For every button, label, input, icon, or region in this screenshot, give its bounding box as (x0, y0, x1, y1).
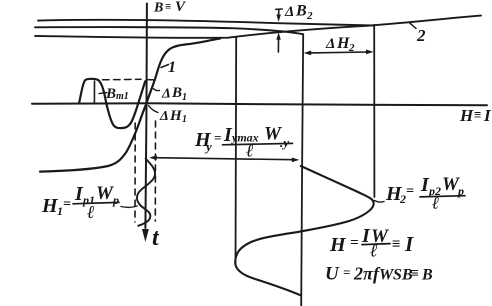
B(t) waveform left (79, 79, 145, 128)
svg-text:≡: ≡ (411, 267, 419, 282)
svg-text:2: 2 (416, 26, 426, 45)
vertical V1 (235, 37, 238, 265)
svg-text:2: 2 (399, 192, 406, 206)
svg-text:H: H (459, 106, 474, 125)
top line A (38, 20, 373, 26)
vertical V3 (373, 25, 375, 197)
svg-text:=: = (63, 197, 71, 212)
svg-text:Δ: Δ (284, 4, 294, 20)
svg-text:=: = (214, 130, 221, 145)
svg-text:1: 1 (182, 92, 187, 103)
svg-text:H: H (169, 108, 183, 124)
svg-text:ymax: ymax (230, 131, 259, 145)
svg-text:ℓ: ℓ (370, 241, 378, 261)
svg-text:1: 1 (168, 59, 176, 76)
dashed vertical right of t-axis (154, 121, 156, 221)
svg-text:1: 1 (182, 114, 187, 125)
svg-text:2: 2 (348, 42, 355, 54)
svg-text:2: 2 (306, 10, 313, 22)
svg-text:H: H (336, 35, 350, 52)
svg-text:≡: ≡ (165, 1, 171, 13)
svg-text:=: = (350, 235, 359, 251)
svg-text:≡: ≡ (474, 107, 481, 122)
svg-text:2: 2 (353, 264, 363, 284)
svg-text:U: U (325, 264, 340, 285)
svg-text:H: H (329, 234, 347, 256)
svg-text:B: B (105, 86, 116, 102)
saturation line / curve 2 (35, 16, 481, 38)
vertical V2 (301, 34, 303, 306)
big H2(t) sine wave (235, 166, 374, 295)
dB2 upper arrow (278, 9, 280, 15)
dH1 label tick (149, 106, 159, 113)
svg-text:B: B (421, 267, 433, 284)
B axis (vertical) with time arrowhead at bottom (145, 4, 147, 229)
svg-text:I: I (404, 232, 414, 256)
svg-text:ℓ: ℓ (432, 194, 439, 213)
label 1 tick (161, 65, 169, 68)
svg-text:Δ: Δ (161, 87, 171, 102)
svg-text:W: W (96, 183, 114, 204)
svg-text:.y: .y (280, 135, 289, 150)
Bm1 label tick (99, 93, 107, 94)
svg-text:p: p (112, 193, 119, 207)
svg-text:S: S (393, 267, 402, 284)
svg-text:B: B (295, 3, 307, 20)
label 2 tick (409, 22, 416, 28)
Bm1 level dashed line (103, 78, 142, 81)
Bm1 vertical marker (93, 81, 95, 103)
magnetization curve 1 (40, 39, 220, 172)
H1(t) small waveform (137, 159, 155, 226)
svg-text:m1: m1 (116, 91, 129, 102)
svg-text:Δ: Δ (325, 36, 335, 52)
svg-text:B: B (153, 1, 163, 16)
Hy dimension arrow (155, 158, 293, 160)
top line B (35, 27, 303, 34)
svg-text:ℓ: ℓ (87, 202, 95, 222)
H1 formula tick to wave (121, 206, 137, 207)
dashed vertical left of t-axis (134, 123, 136, 222)
dB1 label tick (154, 89, 160, 91)
dH2 dimension arrow (310, 51, 367, 54)
svg-text:y: y (204, 139, 212, 154)
svg-text:≡: ≡ (392, 237, 401, 253)
svg-text:B: B (171, 85, 182, 101)
svg-text:Δ: Δ (159, 109, 169, 124)
H axis (horizontal) (32, 103, 487, 105)
svg-text:ℓ: ℓ (246, 141, 254, 161)
svg-text:=: = (343, 265, 350, 280)
svg-text:=: = (406, 184, 414, 199)
Bm1 level dash stub over axis to curve (147, 79, 155, 81)
dB2 lower arrow (277, 39, 279, 52)
H2 formula tick (374, 201, 384, 203)
